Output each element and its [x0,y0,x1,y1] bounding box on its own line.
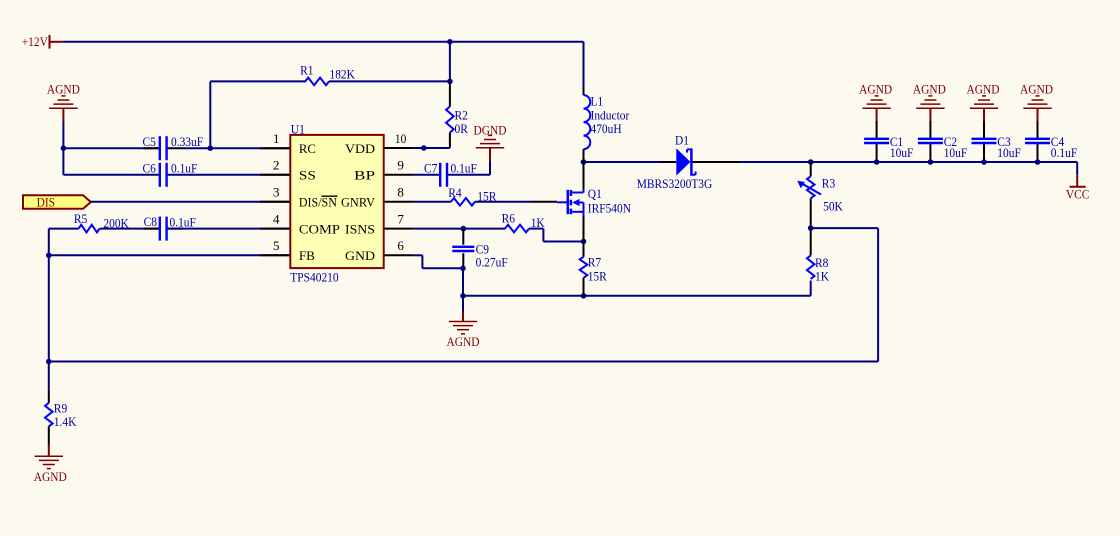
IC U1 TPS40210 body [290,121,383,284]
svg-text:IRF540N: IRF540N [588,201,632,216]
svg-text:R4: R4 [448,185,462,200]
svg-text:0.27uF: 0.27uF [476,255,508,270]
resistor R3 (rheostat) [797,162,843,228]
node R1/R2 [447,79,453,85]
capacitor C1 [864,121,913,162]
capacitor C8 [144,214,196,240]
wire RC pin1 row [63,122,290,149]
svg-text:5: 5 [273,238,280,253]
power port +12V [22,34,63,49]
capacitor C7 [424,161,477,187]
svg-text:AGND: AGND [913,82,946,97]
svg-text:7: 7 [397,211,404,226]
svg-text:3: 3 [273,185,280,200]
svg-text:1.4K: 1.4K [54,414,77,429]
wire +12V rail [63,42,584,94]
svg-text:U1: U1 [291,121,305,136]
node FB branch [46,253,52,259]
svg-text:C8: C8 [144,214,157,229]
svg-text:1K: 1K [531,215,546,230]
node C9 bottom [460,266,466,272]
svg-text:0.1uF: 0.1uF [170,215,196,230]
svg-text:VCC: VCC [1066,187,1090,202]
node R3/R8/FB [808,225,814,231]
svg-text:DIS: DIS [37,195,55,210]
ground AGND (above C1) [859,82,892,123]
diode D1 [637,133,713,191]
node ISNS/C9 [461,226,467,232]
svg-text:4: 4 [273,211,280,226]
node L1/Q1/D1 [581,159,587,165]
svg-text:AGND: AGND [859,82,892,97]
svg-text:AGND: AGND [447,334,480,349]
node rail/R2 [447,39,453,45]
resistor R8 [807,228,830,284]
wire COMP pin4 row [49,229,290,256]
ground AGND (top left) [47,82,80,123]
svg-text:C5: C5 [143,134,156,149]
ground AGND (above C3) [967,82,1000,123]
svg-text:15R: 15R [588,268,607,283]
wire DIS pin3 row [91,201,290,203]
ground AGND (above C2) [913,82,946,123]
svg-text:0.1uF: 0.1uF [451,161,477,176]
svg-text:9: 9 [397,158,404,173]
svg-text:COMP: COMP [299,221,340,236]
svg-text:10uF: 10uF [890,145,914,160]
svg-text:2: 2 [273,158,280,173]
node C4 [1035,159,1041,165]
node pin10 wire [421,145,427,151]
wire SS pin2 row [63,148,290,175]
svg-text:R7: R7 [588,254,602,269]
resistor R9 [45,362,77,430]
svg-text:50K: 50K [823,199,843,214]
svg-text:DGND: DGND [474,122,507,137]
resistor R5 [74,211,129,233]
wire C9 branch [462,229,464,269]
resistor R6 [502,210,546,232]
svg-text:10uF: 10uF [997,145,1021,160]
svg-text:AGND: AGND [34,469,67,484]
wire feedback [49,228,878,361]
svg-text:R5: R5 [74,211,87,226]
wire R1 net [210,81,450,148]
svg-text:15R: 15R [477,188,496,203]
svg-text:R3: R3 [822,175,835,190]
svg-text:AGND: AGND [967,82,1000,97]
svg-text:182K: 182K [330,67,356,82]
svg-text:R9: R9 [54,400,67,415]
resistor R1 [300,63,355,86]
wire ground bus [463,281,811,296]
ground AGND (above C4) [1020,82,1053,123]
pin names and numbers U1 [273,131,406,263]
svg-text:6: 6 [397,238,404,253]
resistor R2 [446,107,468,136]
power port VCC [1066,175,1090,201]
svg-text:8: 8 [397,185,404,200]
inductor L1 [584,88,630,162]
node C2 [928,159,934,165]
capacitor C3 [972,121,1021,162]
resistor R7 [580,242,607,296]
svg-text:C6: C6 [143,160,157,175]
wire FB pin5 row [49,254,290,256]
svg-text:R1: R1 [300,63,313,78]
svg-text:10: 10 [395,131,406,146]
svg-text:BP: BP [354,168,375,183]
svg-text:D1: D1 [675,133,689,148]
wire R2 branch [449,42,451,148]
svg-text:200K: 200K [103,215,129,230]
svg-text:0R: 0R [455,121,469,136]
svg-text:R6: R6 [502,210,516,225]
wire output row [584,162,1078,175]
capacitor C2 [918,121,967,162]
port DIS [23,195,91,210]
capacitor C6 [143,160,198,187]
svg-text:TPS40210: TPS40210 [290,269,338,284]
svg-text:RC: RC [299,141,316,156]
svg-text:+12V: +12V [22,34,49,49]
node R9 branch [46,359,52,365]
svg-text:1: 1 [273,131,280,146]
svg-text:1K: 1K [815,269,830,284]
svg-text:470uH: 470uH [591,121,622,136]
ground AGND (mid) [447,296,480,349]
ground AGND (bottom left) [34,426,67,484]
node C1 [874,159,880,165]
svg-text:GNRV: GNRV [341,195,376,210]
node AGND/C5/C6 [61,145,67,151]
capacitor C9 [452,241,507,269]
wire GND pin6 route [384,255,463,268]
resistor R4 [448,185,496,205]
wire GNRV pin8 row [384,201,568,204]
wire VDD pin10 [384,147,450,149]
node C3 [981,159,987,165]
svg-text:0.33uF: 0.33uF [171,134,203,149]
node C5 out [208,145,214,151]
svg-text:0.1uF: 0.1uF [1051,145,1077,160]
svg-text:C7: C7 [424,161,438,176]
capacitor C5 [143,134,204,160]
svg-text:SS: SS [299,168,316,183]
svg-text:AGND: AGND [47,82,80,97]
transistor Q1 [568,162,632,242]
svg-text:VDD: VDD [345,141,375,156]
node R3 top [808,159,814,165]
svg-text:FB: FB [299,248,315,263]
node gnd bus / AGND [460,293,466,299]
svg-text:AGND: AGND [1020,82,1053,97]
svg-text:MBRS3200T3G: MBRS3200T3G [637,176,713,191]
ground DGND [474,122,507,161]
wire BP pin9 row [384,162,490,175]
svg-text:ISNS: ISNS [345,221,375,236]
wire FB vertical [48,255,50,361]
node Q1 source/R6 [581,239,587,245]
svg-text:10uF: 10uF [944,145,968,160]
capacitor C4 [1025,121,1077,162]
svg-text:Q1: Q1 [588,186,602,201]
svg-text:GND: GND [345,248,375,263]
svg-text:0.1uF: 0.1uF [171,160,197,175]
wire C9-to-bus [462,268,464,296]
wire ISNS pin7 row [384,229,584,242]
node R7 bus [581,293,587,299]
